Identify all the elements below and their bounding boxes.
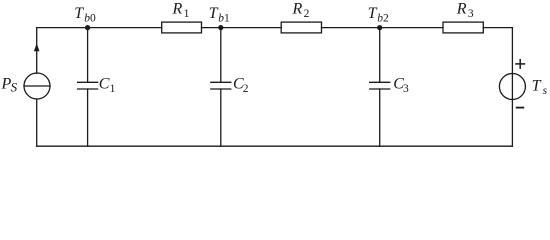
wire left branch below source Ps [36,99,38,146]
wire top rail R2 to R3 (through node Tb2) [322,27,444,29]
svg-text:3: 3 [403,83,409,95]
svg-text:b0: b0 [84,12,96,24]
wire top rail R3 to right corner [483,28,512,147]
resistor R1 [162,22,202,33]
svg-text:2: 2 [304,8,310,20]
svg-text:T: T [74,5,84,22]
current arrow on Ps branch [34,43,40,51]
node Tb1 junction dot [218,25,223,30]
node Tb2 junction dot [377,25,382,30]
wire bottom rail [37,145,513,147]
capacitor C3 [370,28,390,147]
resistor R2 [281,22,321,33]
svg-text:R: R [456,1,467,18]
wire top rail left: corner to R1 [37,28,162,74]
voltage source Ts [499,74,525,100]
svg-text:1: 1 [184,8,190,20]
svg-text:s: s [543,85,548,97]
label Tb2 [368,5,389,25]
capacitor C2 [211,28,231,147]
minus polarity mark of Ts [516,107,524,109]
capacitor C1 [78,28,98,147]
svg-text:S: S [11,79,18,94]
svg-text:C: C [99,76,110,93]
svg-text:b1: b1 [218,12,230,24]
label Ts [532,78,548,97]
svg-text:T: T [209,5,219,22]
label C3 [393,76,409,96]
svg-text:b2: b2 [377,12,389,24]
wire top rail R1 to R2 (through node Tb1) [202,27,282,29]
label C2 [233,76,249,96]
svg-text:R: R [172,1,183,18]
svg-text:3: 3 [468,8,474,20]
label Tb1 [209,5,230,25]
label C1 [99,76,116,96]
svg-text:T: T [368,5,378,22]
svg-text:T: T [532,78,542,95]
plus polarity mark of Ts [515,59,525,69]
svg-text:2: 2 [243,83,249,95]
current source Ps [24,73,50,99]
label R3 [456,1,474,21]
svg-text:R: R [292,1,303,18]
label Ps [1,76,18,95]
resistor R3 [443,22,483,33]
label R1 [172,1,190,21]
label Tb0 [74,5,96,25]
node Tb0 junction dot [85,25,90,30]
label R2 [292,1,310,21]
svg-text:1: 1 [110,83,116,95]
